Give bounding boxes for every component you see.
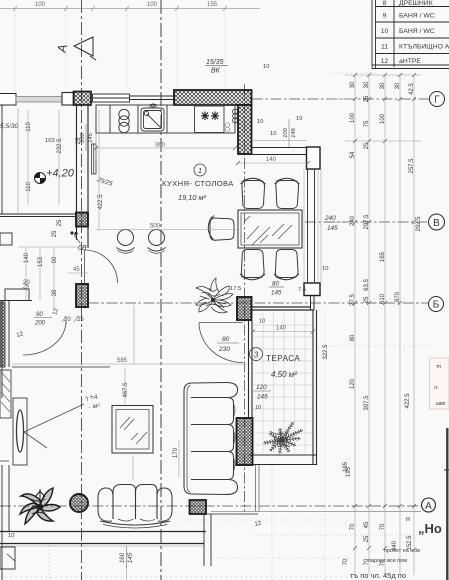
svg-text:500: 500 xyxy=(150,224,161,230)
svg-text:870: 870 xyxy=(395,291,401,302)
svg-text:25: 25 xyxy=(364,142,370,149)
wall top-left box xyxy=(0,94,16,106)
svg-text:Б: Б xyxy=(433,300,440,311)
right dimension labels column 2 xyxy=(364,81,370,565)
left dimension labels rotated xyxy=(24,122,352,477)
svg-text:70: 70 xyxy=(350,523,356,530)
legend table texts xyxy=(381,0,449,65)
kitchen door 80-230 swing xyxy=(199,323,243,363)
svg-text:20: 20 xyxy=(64,317,71,323)
grid axis line vertical 2 xyxy=(160,0,162,580)
chair left end xyxy=(208,216,234,241)
wall right step to terrace xyxy=(311,296,315,311)
door dim 80-230 xyxy=(217,336,239,353)
svg-text:В: В xyxy=(433,218,440,229)
kitchen counter outline xyxy=(96,105,235,160)
svg-text:┐+А: ┐+А xyxy=(84,394,98,402)
svg-text:170: 170 xyxy=(173,447,179,458)
svg-text:БАНЯ / WC: БАНЯ / WC xyxy=(399,28,435,35)
chair top-left xyxy=(241,178,266,208)
svg-text:10: 10 xyxy=(259,319,265,325)
svg-text:н: н xyxy=(406,516,410,523)
svg-text:145: 145 xyxy=(127,552,134,563)
svg-text:54: 54 xyxy=(350,151,356,158)
dining table glass marks xyxy=(244,216,292,245)
grid line V horizontal xyxy=(305,221,428,223)
right dimension labels column 1 xyxy=(343,81,356,565)
dining table xyxy=(238,210,302,248)
top dimension line xyxy=(0,6,260,11)
wall band dining to column xyxy=(238,141,307,155)
svg-text:10: 10 xyxy=(255,405,261,411)
hatched pier left middle xyxy=(76,213,88,227)
pier white column top xyxy=(62,93,74,106)
svg-text:80: 80 xyxy=(272,281,279,288)
label 0V with sockets xyxy=(70,231,86,252)
svg-text:195: 195 xyxy=(346,466,352,477)
fridge snowflake symbols xyxy=(201,112,219,121)
svg-text:17.5: 17.5 xyxy=(230,286,241,292)
chair top-right xyxy=(275,178,300,208)
wall band bottom living xyxy=(0,532,206,547)
plant at kitchen door xyxy=(196,278,233,313)
svg-text:257.5: 257.5 xyxy=(409,158,415,174)
svg-text:ДРЕШНИК: ДРЕШНИК xyxy=(399,0,433,7)
hatched wall vertical (kitchen right) xyxy=(238,105,252,154)
site boundary line below terrace xyxy=(211,511,421,513)
svg-text:+4,20: +4,20 xyxy=(46,168,75,180)
right dimension labels column 4 xyxy=(392,82,401,551)
svg-text:292.5: 292.5 xyxy=(416,216,422,232)
svg-text:25: 25 xyxy=(57,219,63,226)
svg-text:КУХНЯ- СТОЛОВА: КУХНЯ- СТОЛОВА xyxy=(162,179,234,188)
svg-text:1: 1 xyxy=(198,166,202,175)
hatched pier below sofa xyxy=(190,500,207,514)
standing mirror left xyxy=(13,398,27,465)
svg-text:80: 80 xyxy=(350,334,356,341)
svg-text:А: А xyxy=(425,501,432,512)
room number 3 bubble xyxy=(250,348,263,361)
svg-text:230: 230 xyxy=(218,346,230,353)
dark stamp border bottom right xyxy=(444,428,449,580)
kitchen dim 500 xyxy=(96,224,238,230)
svg-text:140: 140 xyxy=(266,157,277,163)
svg-text:100: 100 xyxy=(350,112,356,123)
blue stamp text lines xyxy=(350,548,420,580)
sofa two-seat horizontal xyxy=(98,485,172,529)
svg-text:30: 30 xyxy=(364,81,370,88)
svg-text:110: 110 xyxy=(26,182,32,192)
svg-text:8: 8 xyxy=(383,0,387,7)
grid axis line vertical 3 xyxy=(244,84,246,512)
svg-text:90: 90 xyxy=(52,256,58,263)
bottom dim 160-145 rotated xyxy=(119,547,134,569)
svg-text:80: 80 xyxy=(222,336,230,343)
svg-text:467.5: 467.5 xyxy=(123,382,129,398)
svg-text:тъ по чл. 45д по: тъ по чл. 45д по xyxy=(350,571,406,580)
coffee table glass marks xyxy=(120,417,147,444)
grid bubble V xyxy=(429,214,445,230)
room label kitchen xyxy=(162,179,234,188)
wall hinge circles right of fridge xyxy=(233,109,238,123)
section marker A top-left xyxy=(74,37,96,60)
svg-text:103: 103 xyxy=(45,138,55,144)
terrace hatched pier bottom-left xyxy=(237,418,253,465)
svg-text:Г: Г xyxy=(434,95,440,106)
door 0V leaf and swing xyxy=(85,250,118,283)
svg-text:„Но: „Но xyxy=(418,521,442,536)
svg-text:10: 10 xyxy=(263,64,269,70)
svg-text:45: 45 xyxy=(73,267,80,273)
svg-text:145: 145 xyxy=(88,132,94,142)
window right (dining) xyxy=(304,169,318,283)
neighbour fragments left edge xyxy=(0,105,110,580)
wall continuation below terrace corner xyxy=(256,465,260,512)
terrace wall bottom edge xyxy=(249,455,317,465)
dining dim 140 xyxy=(236,157,310,165)
svg-text:19,10 м²: 19,10 м² xyxy=(178,193,207,202)
svg-text:25: 25 xyxy=(364,535,370,542)
chair bottom-right xyxy=(274,250,299,280)
svg-text:25: 25 xyxy=(52,230,58,237)
svg-text:70: 70 xyxy=(343,558,349,565)
top dimension labels xyxy=(35,2,218,8)
svg-text:3: 3 xyxy=(254,351,259,360)
svg-text:100: 100 xyxy=(147,2,158,8)
svg-text:422.5: 422.5 xyxy=(405,393,411,409)
terrace window dim 80-145 xyxy=(269,281,284,297)
grid bubble A xyxy=(422,498,436,512)
room number 1 bubble xyxy=(194,164,206,176)
svg-text:. м²: . м² xyxy=(89,403,100,410)
svg-text:тп: тп xyxy=(436,364,441,370)
svg-text:232.5: 232.5 xyxy=(57,138,63,154)
svg-text:15/35: 15/35 xyxy=(206,59,224,66)
terrace hatched pier top xyxy=(237,297,252,320)
svg-text:9: 9 xyxy=(383,13,387,20)
legend table top right xyxy=(372,0,449,69)
radiator under left wall xyxy=(92,144,97,174)
svg-text:25: 25 xyxy=(77,317,84,323)
svg-text:610: 610 xyxy=(380,293,386,304)
coffee table square xyxy=(112,406,153,454)
grid line G horizontal xyxy=(252,98,429,100)
svg-text:63.5: 63.5 xyxy=(364,279,370,291)
round column hatched xyxy=(70,494,88,512)
svg-text:160: 160 xyxy=(119,552,126,563)
svg-text:аНТРЕ: аНТРЕ xyxy=(399,58,421,65)
svg-text:100: 100 xyxy=(35,2,46,8)
left guide extension lines xyxy=(18,108,179,580)
chair bottom-left xyxy=(240,250,265,280)
level mark symbol xyxy=(35,173,46,184)
svg-text:100: 100 xyxy=(380,113,386,124)
svg-text:27.5: 27.5 xyxy=(350,294,356,306)
svg-text:397.5: 397.5 xyxy=(364,395,370,411)
hatched pier left lower (door side) xyxy=(76,284,88,307)
window dim 100-145 left rotated xyxy=(80,124,94,151)
svg-text:5,5/30: 5,5/30 xyxy=(0,123,18,130)
svg-text:10: 10 xyxy=(270,131,276,137)
svg-text:БАНЯ / WC: БАНЯ / WC xyxy=(399,13,435,20)
room area kitchen xyxy=(178,193,207,202)
svg-text:парост вси пом: парост вси пом xyxy=(368,558,407,564)
svg-text:10: 10 xyxy=(296,116,302,122)
svg-text:165: 165 xyxy=(380,251,386,262)
kitchen width dim 360 xyxy=(94,143,237,151)
svg-text:КТЪЛБИЩНО АН: КТЪЛБИЩНО АН xyxy=(399,44,449,51)
terrace dim 120-145 xyxy=(253,384,271,401)
svg-text:100: 100 xyxy=(80,132,86,142)
svg-text:110: 110 xyxy=(26,122,32,132)
svg-text:120: 120 xyxy=(350,378,356,389)
plant fern on terrace xyxy=(263,422,303,454)
neighbour hatch strip left xyxy=(0,302,11,418)
svg-text:0В: 0В xyxy=(78,245,87,252)
plant dark living room xyxy=(20,488,60,524)
svg-text:25: 25 xyxy=(364,296,370,303)
svg-text:ВК: ВК xyxy=(211,68,221,75)
grid axis line vertical 1 xyxy=(81,0,83,580)
svg-text:146: 146 xyxy=(291,127,297,137)
right dimension chain lines xyxy=(321,75,421,575)
counter end detail circles xyxy=(225,123,229,132)
blue handwriting big xyxy=(406,516,442,536)
svg-text:10: 10 xyxy=(257,119,263,125)
svg-text:10: 10 xyxy=(381,28,389,35)
door dim 90-200 xyxy=(34,312,52,327)
left wall vertical kitchen xyxy=(77,105,89,248)
svg-text:л.: л. xyxy=(434,385,438,391)
svg-text:12: 12 xyxy=(381,58,389,65)
grid line B horizontal xyxy=(88,302,428,304)
svg-text:45: 45 xyxy=(364,521,370,528)
svg-text:153: 153 xyxy=(38,256,44,267)
wall stub below terrace xyxy=(204,514,258,566)
wall top-left grey band xyxy=(16,97,62,103)
terrace glass left xyxy=(249,320,253,418)
window dim 240-145 xyxy=(324,215,341,232)
svg-text:297.5: 297.5 xyxy=(364,214,370,230)
terrace floor tiles xyxy=(253,313,313,453)
column top-right white xyxy=(307,147,321,169)
grid bubble G xyxy=(430,92,445,107)
svg-text:25: 25 xyxy=(364,95,370,102)
vent label 15/35 VK xyxy=(205,59,228,75)
svg-text:360: 360 xyxy=(155,143,166,149)
svg-text:ТЕРАСА: ТЕРАСА xyxy=(266,354,300,363)
svg-text:120: 120 xyxy=(256,384,267,391)
window dim 100-146 mid rotated xyxy=(283,119,297,147)
svg-text:140: 140 xyxy=(24,252,30,263)
neighbour door arc lower left xyxy=(23,321,66,355)
grid line A horizontal xyxy=(0,505,421,507)
svg-text:швп: швп xyxy=(436,401,446,407)
right dimension ticks xyxy=(353,73,416,550)
level mark text +4,20 xyxy=(46,168,75,180)
svg-text:585: 585 xyxy=(117,358,128,364)
svg-text:4,50 м²: 4,50 м² xyxy=(271,370,297,379)
sofa three-seat vertical xyxy=(184,383,238,495)
bar stool 2 xyxy=(148,230,166,254)
hatched wall band top (exterior) xyxy=(174,90,252,105)
svg-text:10: 10 xyxy=(8,533,14,539)
svg-text:240: 240 xyxy=(324,215,336,222)
svg-text:38: 38 xyxy=(52,289,58,296)
pink stamp fragment right xyxy=(430,358,449,409)
dim 45 above pier xyxy=(66,267,90,275)
terrace wall right edge xyxy=(313,310,317,465)
svg-text:10: 10 xyxy=(322,266,328,272)
wall below 0V door hatch end xyxy=(0,214,76,217)
svg-text:42.5: 42.5 xyxy=(409,83,415,95)
terrace dim 140 xyxy=(251,326,315,334)
living dim 585 xyxy=(12,358,247,364)
svg-text:200: 200 xyxy=(34,321,46,327)
svg-text:11: 11 xyxy=(381,44,388,51)
svg-text:240: 240 xyxy=(350,215,356,226)
mirror leader lines xyxy=(24,404,84,448)
svg-text:7.5: 7.5 xyxy=(298,287,306,293)
left small texts xyxy=(0,64,328,539)
pier hatched column top-left xyxy=(74,92,92,106)
svg-text:70: 70 xyxy=(380,523,386,530)
room label terrace xyxy=(266,354,300,363)
sink xyxy=(141,104,164,131)
svg-text:145: 145 xyxy=(257,394,268,401)
cooktop burners xyxy=(119,109,129,132)
svg-text:30: 30 xyxy=(380,82,386,89)
svg-text:проект на жбв: проект на жбв xyxy=(384,548,420,554)
column right lower white xyxy=(304,283,320,296)
svg-text:155: 155 xyxy=(207,2,218,8)
svg-text:100: 100 xyxy=(283,127,289,137)
faded room label living xyxy=(84,394,100,410)
svg-text:145: 145 xyxy=(327,225,338,232)
room area terrace xyxy=(271,370,297,379)
bar stool 1 xyxy=(117,230,135,254)
section marker letter xyxy=(55,42,71,54)
svg-text:145: 145 xyxy=(271,290,282,297)
kitchen window top xyxy=(93,94,175,102)
right dimension labels column 5 xyxy=(405,83,422,551)
svg-text:30: 30 xyxy=(350,81,356,88)
grid bubble B xyxy=(429,297,444,312)
svg-text:90: 90 xyxy=(36,312,43,318)
dim 20-25 slanted xyxy=(62,316,84,323)
svg-text:75: 75 xyxy=(364,120,370,127)
terrace wall top edge xyxy=(252,307,315,310)
right dimension labels column 3 xyxy=(380,82,386,566)
svg-text:30: 30 xyxy=(395,82,401,89)
fridge xyxy=(195,106,225,133)
svg-text:140: 140 xyxy=(276,326,287,332)
svg-text:322.5: 322.5 xyxy=(323,344,329,360)
